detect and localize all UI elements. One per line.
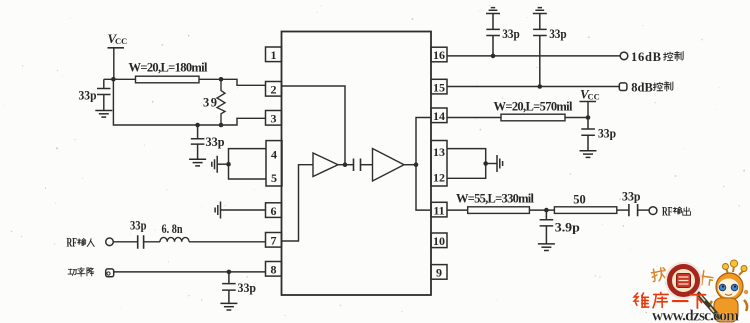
capacitor 3.9p <box>540 210 554 244</box>
ground left of pins 4/5 <box>212 156 217 173</box>
svg-text:33p: 33p <box>622 190 641 204</box>
label 33p (lower-left) <box>206 135 225 149</box>
pin 2 <box>266 82 282 97</box>
ground below pin-8 33p <box>220 303 237 310</box>
ground below lower-left 33p <box>189 159 206 166</box>
ground below VCC2 33p <box>580 151 597 158</box>
svg-text:33p: 33p <box>130 219 147 233</box>
microstrip TL2 W=20 L=570mil <box>501 114 565 121</box>
svg-text:16: 16 <box>433 48 445 62</box>
microstrip TL4 50ohm <box>554 207 616 214</box>
amplifier A2 (second stage triangle) <box>373 149 405 182</box>
label 33p (top-left) <box>79 89 97 103</box>
wire TL2 to VCC2 node <box>565 117 588 119</box>
inductor 6.8n <box>160 237 189 241</box>
wire pin6 to ground <box>221 209 266 211</box>
svg-text:14: 14 <box>433 109 445 123</box>
svg-text:RF: RF <box>67 236 78 250</box>
wire pin16 to 16dB terminal <box>447 55 620 57</box>
svg-text:3: 3 <box>271 112 277 126</box>
svg-text:16dB: 16dB <box>631 50 661 64</box>
wire pin7 to A1 input <box>282 165 314 241</box>
pin 11 <box>431 202 447 217</box>
svg-text:CC: CC <box>588 91 600 101</box>
node pin8 cap junction <box>227 270 232 275</box>
capacitor 33p (16dB line) <box>486 14 500 56</box>
svg-text:W=55,L=330mil: W=55,L=330mil <box>456 192 535 206</box>
label 33p (VCC2) <box>598 127 616 141</box>
ground right of pins 13/12 <box>497 155 503 172</box>
watermark mascot <box>710 260 748 322</box>
wire coupling cap to A2 input <box>361 164 373 166</box>
wire bracket to left ground <box>217 163 228 165</box>
ground above 16dB 33p (inverted) <box>486 8 500 14</box>
svg-text:5: 5 <box>271 171 277 185</box>
node resistor bottom junction <box>219 123 224 128</box>
svg-text:50: 50 <box>573 193 586 207</box>
svg-text:39: 39 <box>203 96 217 110</box>
watermark magnifier handle (held by mascot) <box>695 290 719 317</box>
watermark char 片 <box>698 270 713 286</box>
wire pins13/12 bracket <box>447 149 486 179</box>
microstrip TL3 W=55 L=330mil <box>468 207 530 214</box>
label W=20,L=180mil <box>129 61 209 75</box>
svg-text:33p: 33p <box>79 89 97 103</box>
resistor 39 <box>217 79 225 125</box>
terminal RF input <box>106 238 114 246</box>
pin 3 <box>266 111 282 126</box>
ground above 8dB 33p (inverted) <box>533 8 547 14</box>
capacitor 33p (lower-left decoupling) <box>191 125 205 159</box>
wire TL3 to node <box>529 209 554 211</box>
amplifier A1 (first stage triangle) <box>313 153 338 177</box>
terminal 功率降 input <box>106 269 114 277</box>
wire A2 output to internal bus <box>404 164 416 166</box>
node VCC1 junction <box>111 77 116 82</box>
wire 功率降 to pin 8 <box>114 271 266 273</box>
label 功率降 <box>68 267 94 276</box>
wire lower rail to pin 3 <box>198 118 266 125</box>
terminal 16dB control <box>620 52 628 60</box>
ground left of pin 6 <box>215 202 220 219</box>
svg-text:www.dzsc.com: www.dzsc.com <box>652 308 739 323</box>
label 33p (pin 8) <box>238 281 257 295</box>
label 6.8n <box>162 222 183 236</box>
pins 4/5 shared box <box>266 141 282 186</box>
watermark magnifier with chip <box>666 263 701 298</box>
node VCC2 junction <box>586 115 591 120</box>
svg-text:33p: 33p <box>238 281 257 295</box>
wire cap to inductor <box>144 241 160 243</box>
svg-text:12: 12 <box>433 171 445 185</box>
svg-text:33p: 33p <box>598 127 616 141</box>
wire bracket to right ground <box>486 163 497 165</box>
svg-text:W=20,L=570mil: W=20,L=570mil <box>494 100 574 114</box>
label 8dB控制 <box>631 80 673 94</box>
wire inductor to pin 7 <box>189 241 266 243</box>
pin 6 <box>266 203 282 218</box>
capacitor 33p series (RF output) <box>629 204 638 216</box>
wire RF input to series cap <box>113 241 137 243</box>
label W=55,L=330mil <box>456 192 535 206</box>
wire VCC1 node to bypass cap <box>104 79 114 88</box>
svg-text:1: 1 <box>271 48 277 62</box>
svg-text:8dB: 8dB <box>631 80 653 94</box>
MAIN SCHEMATIC placeholder <box>634 260 748 323</box>
pin 1 <box>266 47 282 62</box>
node lower rail cap junction <box>195 123 200 128</box>
pin 9 <box>431 265 447 280</box>
node pins13/12 bracket junction <box>483 161 488 166</box>
watermark url www.dzsc.com <box>652 308 739 323</box>
terminal RF output <box>649 207 657 215</box>
svg-text:33p: 33p <box>549 27 567 41</box>
svg-text:15: 15 <box>433 80 445 94</box>
wire VCC1 stem down to lower rail <box>113 79 197 125</box>
coupling capacitor between stages <box>354 159 361 172</box>
label W=20,L=570mil <box>494 100 574 114</box>
svg-text:13: 13 <box>433 145 445 159</box>
label 33p (RF output) <box>622 190 641 204</box>
wire TL4 to series cap <box>617 209 629 211</box>
wire pin2 internal to A1 output <box>282 86 346 165</box>
node output shunt junction <box>544 208 549 213</box>
capacitor 33p (pin 8) <box>222 272 236 304</box>
pin 15 <box>431 79 447 94</box>
wire pins4/5 bracket <box>229 149 267 179</box>
capacitor 33p (8dB line) <box>533 14 547 87</box>
svg-text:8: 8 <box>271 263 277 277</box>
op-amp IC U1 body <box>282 32 432 296</box>
microstrip TL1 W=20 L=180mil <box>136 76 200 83</box>
pin 10 <box>431 233 447 248</box>
svg-text:10: 10 <box>433 234 445 248</box>
svg-text:2: 2 <box>271 83 277 97</box>
label RF输出 <box>662 205 690 219</box>
node 8dB cap junction <box>538 84 543 89</box>
node 16dB cap junction <box>491 54 496 59</box>
pin 8 <box>266 262 282 277</box>
power VCC1 symbol top-left <box>108 31 128 80</box>
terminal 8dB control <box>619 83 627 91</box>
power VCC2 symbol <box>580 86 600 117</box>
svg-text:W=20,L=180mil: W=20,L=180mil <box>129 61 209 75</box>
capacitor 33p series (RF input) <box>138 235 144 249</box>
node A2 output junction <box>414 162 419 167</box>
svg-text:33p: 33p <box>502 27 520 41</box>
label 50 <box>573 193 586 207</box>
svg-text:CC: CC <box>115 36 127 46</box>
pin 7 <box>266 233 282 248</box>
wire pin14 to microstrip <box>447 117 501 119</box>
wire A1 out to coupling cap <box>338 164 354 166</box>
watermark text 维库一下 <box>634 292 705 308</box>
label 3.9p <box>555 221 580 235</box>
svg-text:4: 4 <box>271 148 277 162</box>
svg-text:9: 9 <box>436 266 442 280</box>
pin 14 <box>431 108 447 123</box>
label RF输入 <box>67 236 95 250</box>
svg-text:RF: RF <box>662 205 673 219</box>
svg-text:6. 8n: 6. 8n <box>162 222 183 236</box>
svg-text:6: 6 <box>271 204 277 218</box>
svg-text:11: 11 <box>433 203 444 217</box>
label 33p (RF input) <box>130 219 147 233</box>
svg-text:7: 7 <box>271 234 277 248</box>
ground below 3.9p <box>538 244 555 251</box>
wire VCC1 node to microstrip <box>113 78 135 80</box>
watermark char 找 <box>651 267 667 281</box>
wire TL1 to node <box>199 79 266 85</box>
capacitor 33p (top-left bypass) <box>97 89 111 111</box>
node A1 output junction <box>343 162 348 167</box>
wire internal bus pin14 to pin11 <box>416 118 431 211</box>
svg-text:3.9p: 3.9p <box>555 221 580 235</box>
wire pin15 to 8dB terminal <box>447 86 619 88</box>
node resistor top junction <box>219 77 224 82</box>
label 33p (16dB cap) <box>502 27 520 41</box>
wire pin11 to output microstrip <box>447 209 468 211</box>
node pins4/5 bracket junction <box>226 162 231 167</box>
pins 13/12 shared box <box>431 141 447 187</box>
capacitor 33p (VCC2) <box>581 118 595 151</box>
label 16dB控制 <box>631 50 683 64</box>
label 39 <box>203 96 217 110</box>
pin 16 <box>431 47 447 62</box>
wire series cap to RF out terminal <box>638 209 650 211</box>
label 33p (8dB cap) <box>549 27 567 41</box>
ground below top-left 33p <box>95 111 112 118</box>
svg-text:33p: 33p <box>206 135 225 149</box>
